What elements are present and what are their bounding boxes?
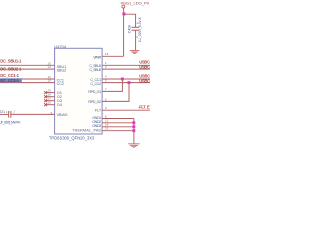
net label DC_CC2-1 highlighted: [0, 78, 22, 82]
wire power rail vertical: [123, 8, 125, 56]
wire DC_SBU1-1 to pin SBU1: [0, 64, 55, 66]
wire DC_CC1-1 to pin CC1: [0, 78, 55, 80]
svg-text:9: 9: [105, 106, 107, 110]
svg-text:USBC_SBU2: USBC_SBU2: [139, 64, 150, 69]
svg-text:RPD_G2: RPD_G2: [88, 100, 101, 104]
wire RPD_G1 up to C_CC1: [102, 79, 122, 91]
pin D4 stub with no-connect X: [45, 104, 55, 106]
capacitor C428 plates: [132, 26, 140, 28]
junction dot C_CC1 / RPD_G1: [121, 78, 124, 81]
junction dot GND3: [132, 125, 135, 128]
svg-text:SBU2: SBU2: [57, 68, 67, 72]
pin D3 stub with no-connect X: [45, 100, 55, 102]
svg-text:14: 14: [47, 65, 51, 69]
svg-text:9: 9: [50, 111, 52, 115]
ground bus vertical: [133, 119, 135, 144]
svg-text:6: 6: [105, 97, 107, 101]
svg-text:C_SBU2: C_SBU2: [89, 68, 101, 72]
junction dot GND2: [132, 121, 135, 124]
pin D1 stub with no-connect X: [45, 92, 55, 94]
IC U4704 body: [55, 48, 103, 134]
svg-text:1U_0201_6.3V-K: 1U_0201_6.3V-K: [138, 16, 142, 42]
svg-text:C428: C428: [128, 25, 132, 33]
wire RPD_G2 up to C_CC2: [102, 83, 129, 102]
svg-text:RPD_G1: RPD_G1: [88, 90, 101, 94]
wire VPWR pin to power rail: [102, 55, 124, 57]
svg-text:VPWR: VPWR: [93, 55, 101, 59]
svg-text:#GG1_LDO_P9: #GG1_LDO_P9: [121, 1, 150, 6]
svg-text:D4: D4: [57, 103, 62, 107]
svg-text:DC_SBU1-1: DC_SBU1-1: [0, 59, 22, 64]
svg-text:THERMAL_PAD: THERMAL_PAD: [72, 128, 101, 132]
junction dot power rail: [122, 12, 125, 15]
svg-text:10: 10: [47, 79, 51, 83]
svg-text:TPD6S300_QFN20_3X3: TPD6S300_QFN20_3X3: [49, 136, 95, 141]
svg-text:FLT: FLT: [95, 109, 102, 113]
wire C_CC2 to USBC label: [102, 82, 150, 84]
wire C_CC1 to USBC label: [102, 78, 150, 80]
wire branch to capacitor C428: [124, 14, 136, 27]
svg-text:2: 2: [13, 109, 15, 113]
power port circle: [122, 5, 125, 8]
wire C_SBU2 to USBC label: [102, 68, 150, 70]
wire FLT to -FLT label: [102, 109, 150, 111]
ground symbol bottom: [128, 144, 140, 148]
ground under C428: [130, 51, 140, 54]
wire GND1 to ground bus: [102, 118, 134, 120]
svg-text:U4704: U4704: [54, 44, 66, 49]
wire capacitor C4221 to VBIAS pin: [11, 113, 54, 115]
svg-text:USBC_CC2: USBC_CC2: [139, 79, 150, 84]
junction dot C_CC2 / RPD_G2: [128, 81, 131, 84]
svg-text:DC_SBU2-1: DC_SBU2-1: [0, 67, 22, 72]
svg-text:7: 7: [105, 87, 107, 91]
svg-text:18: 18: [105, 52, 109, 56]
svg-text:221: 221: [0, 110, 5, 114]
capacitor C4221 plates: [8, 111, 10, 118]
wire DC_CC2-1 to pin CC2: [0, 82, 55, 84]
wire DC_SBU2-1 to pin SBU2: [0, 68, 55, 70]
svg-text:UF_0603_MW7-K: UF_0603_MW7-K: [0, 120, 21, 124]
svg-text:DC_CC2-1: DC_CC2-1: [0, 78, 19, 83]
svg-text:1: 1: [6, 110, 8, 114]
junction dot THERMAL_PAD: [132, 129, 135, 132]
svg-text:VBIAS: VBIAS: [57, 113, 68, 117]
wire capacitor C428 to ground: [135, 31, 137, 51]
wire left edge to capacitor C4221: [0, 113, 8, 115]
wire THERMAL_PAD to ground bus: [102, 130, 134, 132]
svg-text:CC2: CC2: [57, 82, 64, 86]
wire GND2 to ground bus: [102, 122, 134, 124]
svg-text:-FLT_E: -FLT_E: [138, 105, 150, 110]
wire GND3 to ground bus: [102, 126, 134, 128]
pin D2 stub with no-connect X: [45, 96, 55, 98]
svg-text:C_CC2: C_CC2: [90, 82, 101, 86]
svg-text:16: 16: [47, 101, 51, 105]
wire C_SBU1 to USBC label: [102, 64, 150, 66]
